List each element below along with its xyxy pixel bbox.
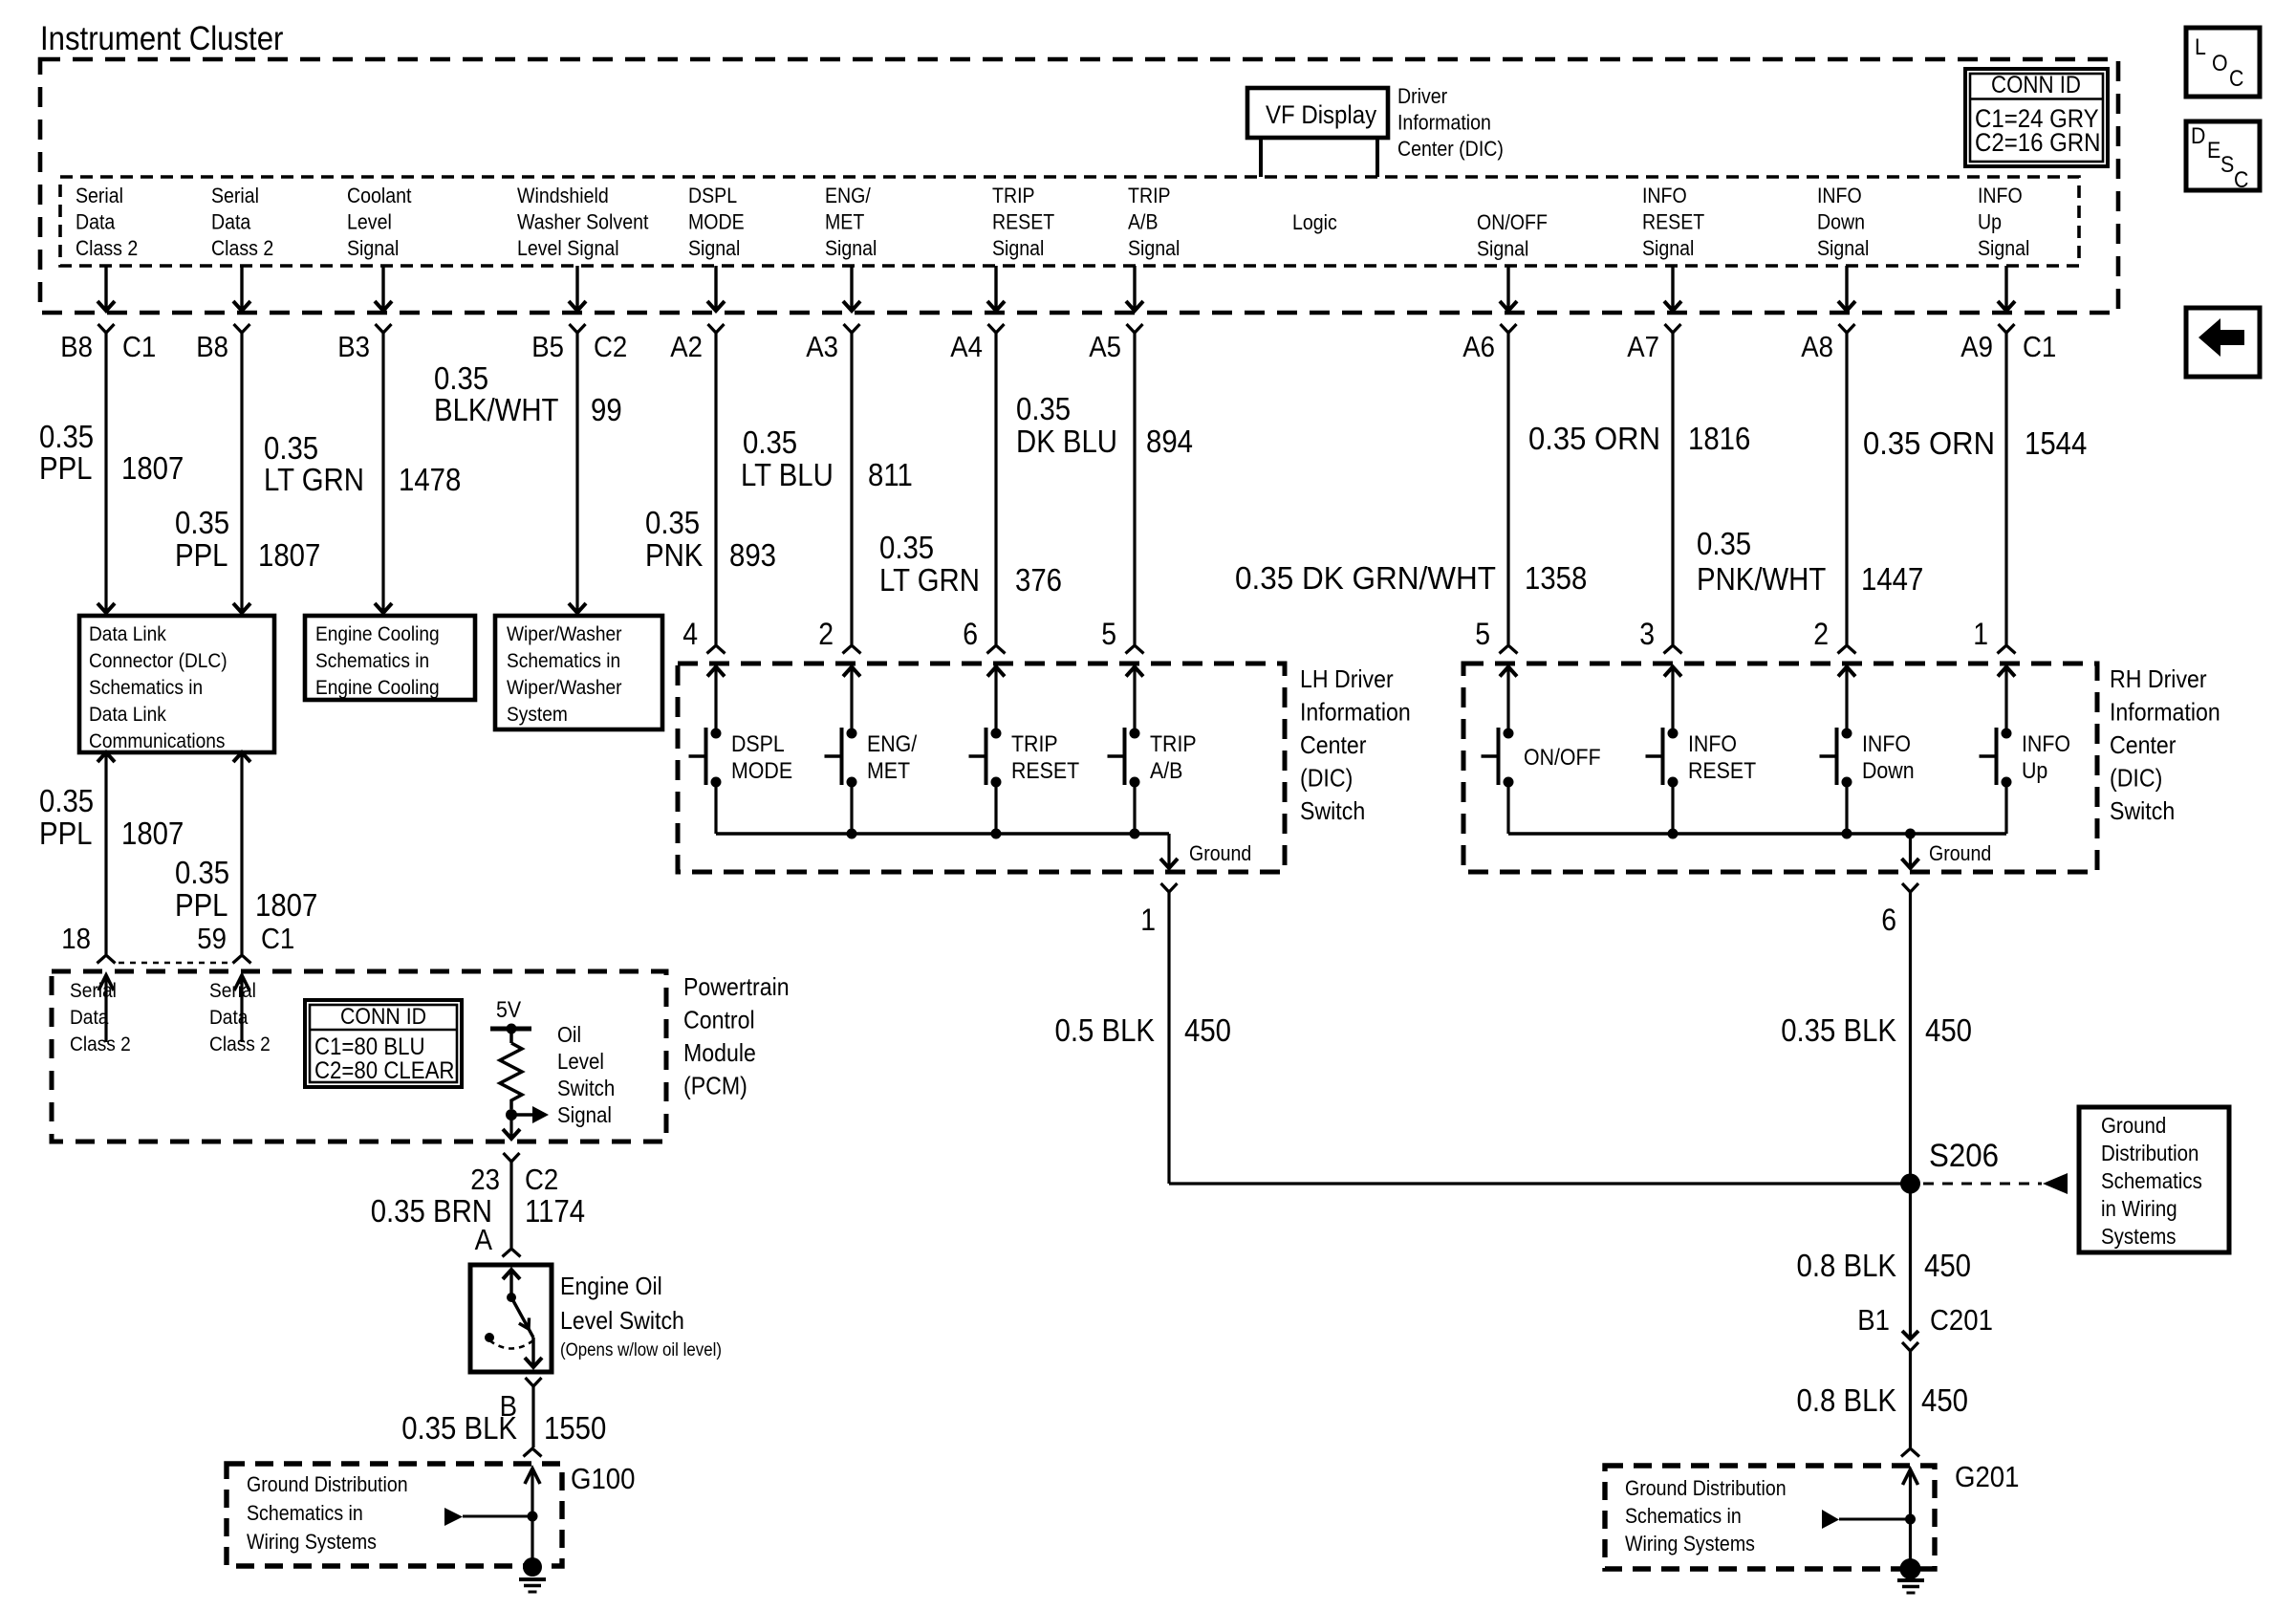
- label Engine Oil Level Switch: [560, 1272, 722, 1360]
- wire 0.5 BLK 450 horizontal run to S206: [1169, 1182, 1911, 1185]
- wire/arrow into switch box at TRIP RESET switch: [987, 667, 1005, 734]
- wire 0.35 PPL 1807 (B8-DLC): [233, 333, 250, 613]
- connector pin 2 chevron (INFO Down switch): [1838, 645, 1856, 654]
- signal label Coolant Level Signal (B3): [347, 184, 412, 260]
- label ENG/ MET: [867, 731, 917, 784]
- svg-text:(DIC): (DIC): [2110, 764, 2162, 793]
- label ON/OFF: [1524, 745, 1601, 771]
- wire label 0.35 LT GRN 1478: [264, 430, 461, 497]
- svg-text:LT GRN: LT GRN: [879, 562, 980, 598]
- svg-text:18: 18: [61, 922, 91, 955]
- connector pin B8 (instrument cluster): [98, 324, 115, 333]
- svg-text:Class 2: Class 2: [70, 1033, 131, 1055]
- wire into DSPL MODE switch (pin 4): [714, 333, 717, 644]
- wire 0.35 BLK 450: [1909, 892, 1912, 1184]
- wire/arrow into G100: [525, 1469, 540, 1567]
- svg-text:O: O: [2212, 51, 2228, 76]
- svg-text:BLK/WHT: BLK/WHT: [434, 392, 559, 427]
- svg-text:Ground Distribution: Ground Distribution: [247, 1472, 408, 1496]
- wire/arrow instrument cluster output B8: [233, 266, 250, 311]
- svg-text:C1: C1: [122, 330, 156, 363]
- svg-text:1807: 1807: [255, 887, 317, 923]
- svg-text:C2=80 CLEAR: C2=80 CLEAR: [314, 1057, 455, 1084]
- wire/arrow instrument cluster output A4: [987, 266, 1005, 311]
- LH Driver Information Center (DIC) Switch box: [678, 664, 1285, 872]
- svg-text:TRIP: TRIP: [1011, 731, 1058, 757]
- svg-text:DK BLU: DK BLU: [1016, 424, 1117, 459]
- svg-text:Oil: Oil: [557, 1022, 581, 1047]
- wire/arrow LH ground to box edge: [1160, 834, 1178, 868]
- svg-text:RESET: RESET: [1642, 210, 1704, 234]
- svg-text:Instrument Cluster: Instrument Cluster: [40, 20, 284, 57]
- svg-text:A8: A8: [1801, 330, 1833, 363]
- svg-text:0.8 BLK: 0.8 BLK: [1797, 1382, 1897, 1418]
- svg-text:A3: A3: [806, 330, 838, 363]
- Data Link Connector (DLC) reference box: [79, 616, 274, 752]
- svg-text:A7: A7: [1627, 330, 1659, 363]
- svg-text:99: 99: [591, 392, 622, 427]
- connector pin 59 chevron: [233, 955, 251, 964]
- svg-text:A4: A4: [950, 330, 983, 363]
- svg-text:(Opens w/low oil level): (Opens w/low oil level): [560, 1340, 722, 1360]
- wire 0.35 BRN 1174 upper segment: [509, 1162, 512, 1248]
- wire/arrow into switch box at ON/OFF switch: [1500, 667, 1517, 734]
- svg-text:INFO: INFO: [1688, 731, 1737, 757]
- wire into INFO Up switch (pin 1): [2004, 333, 2007, 644]
- svg-text:0.35: 0.35: [39, 419, 94, 454]
- svg-text:E: E: [2207, 138, 2220, 163]
- label Ground Distribution Schematics in Wiring Systems (G100): [247, 1472, 408, 1554]
- svg-text:(PCM): (PCM): [683, 1072, 747, 1100]
- wire into INFO Down switch (pin 2): [1845, 333, 1848, 644]
- svg-text:6: 6: [1881, 903, 1896, 937]
- svg-text:Schematics: Schematics: [2101, 1168, 2202, 1193]
- Instrument Cluster internal signal box: [60, 177, 2079, 266]
- signal label INFO Down Signal (A8): [1817, 184, 1869, 260]
- wire/arrow instrument cluster output A6: [1500, 266, 1517, 311]
- label Powertrain Control Module (PCM): [683, 972, 790, 1100]
- svg-text:MODE: MODE: [731, 758, 792, 784]
- signal label TRIP RESET Signal (A4): [992, 184, 1054, 260]
- pushbutton INFO Up switch: [1980, 728, 2012, 834]
- svg-text:Signal: Signal: [1128, 236, 1180, 260]
- connector pin 4 chevron (DSPL MODE switch): [707, 645, 726, 654]
- svg-text:INFO: INFO: [1642, 184, 1687, 207]
- wire label 0.35 DK BLU 894: [1016, 391, 1193, 459]
- svg-text:Serial: Serial: [76, 184, 123, 207]
- wire/arrow into switch box at ENG/MET switch: [843, 667, 860, 734]
- wire/arrow into switch box at DSPL MODE switch: [707, 667, 725, 734]
- signal label ENG/MET Signal (A3): [825, 184, 877, 260]
- svg-text:Information: Information: [1300, 698, 1411, 727]
- Powertrain Control Module (PCM) box: [52, 971, 666, 1142]
- Instrument Cluster box: [40, 59, 2118, 313]
- svg-text:1: 1: [1140, 903, 1156, 937]
- svg-text:2: 2: [1813, 617, 1829, 651]
- connector chevron at G201: [1901, 1448, 1919, 1457]
- wire 0.35 BLK/WHT 99: [569, 333, 586, 613]
- svg-text:RESET: RESET: [992, 210, 1054, 234]
- svg-text:Up: Up: [1978, 210, 2002, 234]
- label TRIP A/B: [1150, 731, 1197, 784]
- wire 0.5 BLK 450: [1167, 892, 1170, 1184]
- svg-text:Engine Cooling: Engine Cooling: [315, 622, 440, 645]
- connector pin A8 (instrument cluster): [1839, 324, 1855, 333]
- svg-text:PNK: PNK: [645, 537, 703, 573]
- svg-text:PPL: PPL: [39, 450, 93, 486]
- svg-text:B1: B1: [1857, 1303, 1890, 1337]
- wire/arrow instrument cluster output A3: [843, 266, 860, 311]
- svg-text:Information: Information: [1397, 111, 1491, 135]
- svg-text:Control: Control: [683, 1006, 755, 1034]
- wire/arrow instrument cluster output A8: [1838, 266, 1855, 311]
- svg-text:MODE: MODE: [688, 210, 745, 234]
- connector pin 3 chevron (INFO RESET switch): [1664, 645, 1682, 654]
- svg-text:Signal: Signal: [557, 1102, 612, 1127]
- svg-text:(DIC): (DIC): [1300, 764, 1353, 793]
- svg-text:Class 2: Class 2: [76, 236, 138, 260]
- connector C201 symbol: [1902, 1331, 1918, 1351]
- svg-text:C201: C201: [1930, 1303, 1993, 1337]
- svg-text:5: 5: [1101, 617, 1116, 651]
- svg-text:Windshield: Windshield: [517, 184, 609, 207]
- connector pin A7 (instrument cluster): [1665, 324, 1681, 333]
- svg-text:DSPL: DSPL: [688, 184, 737, 207]
- RH switch ground bus: [1508, 829, 2006, 839]
- wire/arrow into switch box at TRIP A/B switch: [1126, 667, 1143, 734]
- wire/arrow instrument cluster output B5: [569, 266, 586, 311]
- svg-text:RH Driver: RH Driver: [2110, 664, 2207, 693]
- label RH Driver Information Center (DIC) Switch: [2110, 664, 2220, 825]
- left-arrow reference box: [2186, 308, 2260, 377]
- svg-text:C1=80 BLU: C1=80 BLU: [314, 1033, 425, 1060]
- ground G100 terminal: [519, 1557, 546, 1592]
- svg-text:MET: MET: [825, 210, 864, 234]
- wire label 0.35 DK GRN/WHT 1358: [1235, 560, 1587, 596]
- wire/arrow into switch box at INFO RESET switch: [1664, 667, 1681, 734]
- wire/arrow RH ground to box edge: [1902, 834, 1919, 868]
- svg-text:CONN ID: CONN ID: [1991, 72, 2081, 98]
- G201 off-page arrow: [1822, 1510, 1911, 1529]
- svg-text:450: 450: [1921, 1382, 1968, 1418]
- wire/arrow instrument cluster output A2: [707, 266, 725, 311]
- svg-text:D: D: [2191, 123, 2205, 149]
- connector pin 23 chevron (PCM C2): [504, 1153, 520, 1162]
- resistor R (oil level pull-up): [500, 1043, 522, 1109]
- wire into ENG/MET switch (pin 2): [850, 333, 853, 644]
- svg-text:G201: G201: [1955, 1460, 2020, 1493]
- svg-text:Wiring Systems: Wiring Systems: [1625, 1532, 1755, 1556]
- connector pin A2 (instrument cluster): [708, 324, 725, 333]
- wire 0.35 BLK 1550: [531, 1386, 534, 1447]
- wire label 0.35 PNK 893: [645, 505, 776, 573]
- LH switch ground bus: [716, 829, 1169, 839]
- svg-text:1174: 1174: [525, 1193, 585, 1229]
- label DSPL MODE: [731, 731, 792, 784]
- svg-text:811: 811: [868, 457, 913, 492]
- svg-text:0.35 ORN: 0.35 ORN: [1863, 425, 1995, 461]
- svg-text:0.8 BLK: 0.8 BLK: [1797, 1248, 1897, 1283]
- wire label 0.35 ORN 1544: [1863, 425, 2087, 461]
- wire label 0.8 BLK 450 (below C201): [1797, 1382, 1969, 1418]
- svg-text:Signal: Signal: [688, 236, 740, 260]
- connector pin B3 (instrument cluster): [376, 324, 392, 333]
- svg-text:59: 59: [197, 922, 227, 955]
- svg-text:Serial: Serial: [209, 979, 256, 1002]
- svg-text:0.35: 0.35: [1697, 526, 1751, 561]
- svg-text:450: 450: [1924, 1248, 1971, 1283]
- connector pin B chevron: [526, 1378, 542, 1386]
- svg-text:PPL: PPL: [39, 816, 93, 851]
- oil level switch signal tap arrow: [511, 1106, 549, 1123]
- svg-text:Data: Data: [76, 210, 116, 234]
- svg-text:Switch: Switch: [1300, 796, 1365, 825]
- G100 ground distribution box: [227, 1464, 562, 1566]
- svg-text:PNK/WHT: PNK/WHT: [1697, 561, 1826, 597]
- svg-text:0.35: 0.35: [434, 360, 488, 396]
- svg-text:Class 2: Class 2: [211, 236, 273, 260]
- label INFO RESET: [1688, 731, 1757, 784]
- Engine Cooling reference box: [305, 616, 475, 700]
- svg-text:Signal: Signal: [1817, 236, 1869, 260]
- svg-text:Schematics in: Schematics in: [507, 649, 620, 672]
- signal label DSPL MODE Signal (A2): [688, 184, 745, 260]
- svg-text:Center: Center: [2110, 730, 2177, 759]
- S206 off-page dashed arrow: [1923, 1173, 2068, 1194]
- svg-text:0.35: 0.35: [175, 505, 229, 540]
- svg-text:Ground Distribution: Ground Distribution: [1625, 1476, 1787, 1500]
- svg-text:Module: Module: [683, 1038, 756, 1067]
- svg-text:INFO: INFO: [1817, 184, 1862, 207]
- label Ground Distribution Schematics in Wiring Systems (G201): [1625, 1476, 1787, 1556]
- svg-text:Switch: Switch: [557, 1076, 615, 1100]
- svg-text:C: C: [2234, 167, 2248, 193]
- svg-text:Signal: Signal: [1978, 236, 2029, 260]
- svg-text:Up: Up: [2022, 758, 2047, 784]
- connector pin B8 (instrument cluster): [234, 324, 250, 333]
- svg-text:Washer Solvent: Washer Solvent: [517, 210, 648, 234]
- wire label 0.35 BLK 450: [1781, 1012, 1972, 1048]
- svg-text:Schematics in: Schematics in: [247, 1501, 363, 1525]
- connector pin 1 chevron (INFO Up switch): [1998, 645, 2016, 654]
- svg-text:3: 3: [1639, 617, 1655, 651]
- svg-text:RESET: RESET: [1688, 758, 1757, 784]
- svg-text:Level: Level: [347, 210, 392, 234]
- svg-text:1478: 1478: [399, 462, 461, 497]
- G100 off-page arrow: [444, 1508, 532, 1526]
- svg-text:L: L: [2195, 34, 2206, 60]
- wire into TRIP RESET switch (pin 6): [994, 333, 997, 644]
- wire label 0.35 PNK/WHT 1447: [1697, 526, 1923, 597]
- svg-text:TRIP: TRIP: [1150, 731, 1197, 757]
- wire 0.8 BLK 450 lower segment: [1909, 1351, 1912, 1448]
- svg-text:TRIP: TRIP: [992, 184, 1035, 207]
- svg-text:2: 2: [818, 617, 834, 651]
- svg-text:0.35: 0.35: [879, 530, 934, 565]
- svg-text:1807: 1807: [121, 816, 184, 851]
- svg-text:1: 1: [1973, 617, 1988, 651]
- svg-text:Signal: Signal: [825, 236, 877, 260]
- svg-text:PPL: PPL: [175, 537, 228, 573]
- wire/arrow instrument cluster output A9: [1998, 266, 2015, 311]
- label INFO Down: [1862, 731, 1915, 784]
- wire VF Display left leg: [1259, 138, 1263, 177]
- wire/arrow into switch box at INFO Up switch: [1998, 667, 2015, 734]
- svg-text:A9: A9: [1960, 330, 1993, 363]
- wire/arrow instrument cluster output A7: [1664, 266, 1681, 311]
- signal label Windshield Washer Solvent Level Signal (B5 C2): [517, 184, 648, 260]
- node G201 junction: [1905, 1514, 1916, 1525]
- svg-text:1447: 1447: [1861, 561, 1923, 597]
- connector pin A9 (instrument cluster): [1999, 324, 2015, 333]
- wire label 0.35 PPL 1807 (wire B8): [175, 505, 320, 573]
- connector chevron at G100: [524, 1448, 542, 1457]
- svg-text:0.35: 0.35: [175, 855, 229, 890]
- svg-text:CONN ID: CONN ID: [340, 1004, 426, 1030]
- svg-text:0.35: 0.35: [1016, 391, 1071, 426]
- svg-text:B5: B5: [531, 330, 564, 363]
- svg-text:Information: Information: [2110, 698, 2220, 727]
- svg-text:LT BLU: LT BLU: [741, 457, 834, 492]
- signal label Serial Data Class 2 (B8 C1): [76, 184, 138, 260]
- svg-text:Wiper/Washer: Wiper/Washer: [507, 622, 622, 645]
- svg-text:450: 450: [1925, 1012, 1972, 1048]
- svg-text:0.35: 0.35: [743, 424, 797, 460]
- svg-text:C2: C2: [594, 330, 627, 363]
- CONN ID table (PCM): [305, 1000, 462, 1087]
- signal label TRIP A/B Signal (A5): [1128, 184, 1180, 260]
- svg-text:1358: 1358: [1525, 560, 1587, 596]
- svg-text:0.35: 0.35: [39, 783, 94, 818]
- connector pin B5 (instrument cluster): [570, 324, 586, 333]
- wire label 0.35 PPL 1807 (wire B8/C1): [39, 419, 184, 486]
- svg-text:C2: C2: [525, 1163, 558, 1196]
- wire label 0.35 LT BLU 811: [741, 424, 913, 492]
- svg-text:Center (DIC): Center (DIC): [1397, 137, 1504, 161]
- wire label 0.8 BLK 450 (above C201): [1797, 1248, 1972, 1283]
- svg-text:INFO: INFO: [1978, 184, 2023, 207]
- svg-text:5: 5: [1475, 617, 1490, 651]
- svg-text:Data: Data: [70, 1006, 108, 1029]
- svg-text:Powertrain: Powertrain: [683, 972, 790, 1001]
- svg-text:MET: MET: [867, 758, 910, 784]
- pushbutton TRIP RESET switch: [969, 728, 1002, 834]
- signal label Serial Data Class 2 (PCM pin 59): [209, 979, 271, 1055]
- svg-text:Wiper/Washer: Wiper/Washer: [507, 676, 622, 699]
- svg-text:Data: Data: [209, 1006, 248, 1029]
- svg-text:Schematics in: Schematics in: [315, 649, 429, 672]
- svg-text:A5: A5: [1089, 330, 1121, 363]
- svg-text:C2=16 GRN: C2=16 GRN: [1975, 128, 2101, 157]
- svg-text:Ground: Ground: [1929, 841, 1991, 865]
- svg-text:DSPL: DSPL: [731, 731, 785, 757]
- DESC reference box: [2186, 121, 2260, 190]
- svg-text:Signal: Signal: [347, 236, 399, 260]
- svg-text:Class 2: Class 2: [209, 1033, 271, 1055]
- svg-text:Engine Oil: Engine Oil: [560, 1272, 662, 1300]
- wire label 0.35 ORN 1816: [1528, 421, 1750, 456]
- svg-text:5V: 5V: [496, 997, 521, 1023]
- oil level switch internal contacts and blade: [485, 1270, 542, 1367]
- svg-text:in Wiring: in Wiring: [2101, 1196, 2177, 1221]
- wire label 0.5 BLK 450: [1055, 1012, 1232, 1048]
- pushbutton INFO RESET switch: [1646, 728, 1679, 834]
- wire label 0.35 PPL 1807 (to PCM pin 59): [175, 855, 317, 923]
- node S206 splice: [1900, 1174, 1920, 1194]
- wire into ON/OFF switch (pin 5): [1506, 333, 1509, 644]
- svg-text:G100: G100: [571, 1462, 636, 1495]
- svg-text:Down: Down: [1817, 210, 1865, 234]
- svg-text:Wiring Systems: Wiring Systems: [247, 1530, 377, 1554]
- connector pin 5 chevron (ON/OFF switch): [1500, 645, 1518, 654]
- pushbutton ENG/MET switch: [825, 728, 857, 834]
- connector pin 5 chevron (TRIP A/B switch): [1126, 645, 1144, 654]
- svg-text:INFO: INFO: [2022, 731, 2070, 757]
- svg-text:A/B: A/B: [1128, 210, 1159, 234]
- pushbutton DSPL MODE switch: [689, 728, 722, 834]
- PCM connector face dashed line: [119, 962, 231, 965]
- signal label ON/OFF Signal (A6): [1477, 210, 1548, 261]
- svg-text:A2: A2: [670, 330, 703, 363]
- wire into TRIP A/B switch (pin 5): [1133, 333, 1136, 644]
- wire 0.8 BLK 450 upper segment: [1909, 1184, 1912, 1338]
- wire label 0.35 BLK/WHT 99: [434, 360, 622, 427]
- svg-text:Distribution: Distribution: [2101, 1141, 2199, 1165]
- svg-text:Communications: Communications: [89, 729, 226, 752]
- signal label Serial Data Class 2 (PCM pin 18): [70, 979, 131, 1055]
- svg-text:Level Switch: Level Switch: [560, 1306, 684, 1335]
- connector pin 6 chevron (RH ground): [1902, 883, 1918, 892]
- connector pin 18 chevron: [97, 955, 116, 964]
- svg-text:ON/OFF: ON/OFF: [1524, 745, 1601, 771]
- wire into INFO RESET switch (pin 3): [1671, 333, 1674, 644]
- pushbutton ON/OFF switch: [1482, 728, 1514, 834]
- wire 0.35 LT GRN 1478: [375, 333, 392, 613]
- wire 0.35 PPL 1807 below DLC (pin 18): [97, 752, 115, 954]
- svg-text:C1: C1: [2023, 330, 2056, 363]
- node G100 junction: [528, 1512, 538, 1522]
- signal label INFO Up Signal (A9 C1): [1978, 184, 2029, 260]
- svg-text:0.35: 0.35: [264, 430, 318, 466]
- svg-text:System: System: [507, 703, 568, 726]
- pushbutton TRIP A/B switch: [1108, 728, 1140, 834]
- svg-text:376: 376: [1015, 562, 1062, 598]
- svg-text:893: 893: [729, 537, 776, 573]
- signal label Serial Data Class 2 (B8): [211, 184, 273, 260]
- svg-text:Center: Center: [1300, 730, 1367, 759]
- svg-text:0.35 BLK: 0.35 BLK: [1781, 1012, 1896, 1048]
- svg-text:Level Signal: Level Signal: [517, 236, 619, 260]
- svg-text:INFO: INFO: [1862, 731, 1911, 757]
- svg-text:0.35 BLK: 0.35 BLK: [401, 1410, 517, 1446]
- connector pin A3 (instrument cluster): [844, 324, 860, 333]
- svg-text:VF Display: VF Display: [1266, 100, 1377, 129]
- svg-text:C: C: [2229, 66, 2243, 92]
- svg-text:1816: 1816: [1688, 421, 1750, 456]
- svg-text:S: S: [2220, 152, 2234, 178]
- svg-text:Schematics in: Schematics in: [1625, 1504, 1742, 1528]
- svg-text:0.5 BLK: 0.5 BLK: [1055, 1012, 1156, 1048]
- svg-text:B8: B8: [196, 330, 228, 363]
- svg-text:A: A: [475, 1223, 493, 1256]
- VF Display box: [1247, 88, 1388, 138]
- label TRIP RESET: [1011, 731, 1080, 784]
- svg-text:Down: Down: [1862, 758, 1915, 784]
- wire/arrow instrument cluster output B8: [97, 266, 115, 311]
- svg-text:1550: 1550: [544, 1410, 606, 1446]
- svg-text:ENG/: ENG/: [867, 731, 917, 757]
- svg-text:LH Driver: LH Driver: [1300, 664, 1394, 693]
